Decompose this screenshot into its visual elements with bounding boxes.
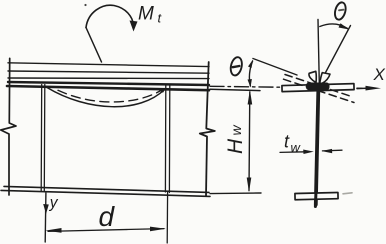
svg-text:t: t (284, 132, 290, 152)
svg-text:d: d (99, 201, 116, 232)
svg-text:y: y (49, 195, 59, 212)
scribble: distorted stiffener curl at section center (306, 71, 330, 90)
section web (thick) (316, 91, 319, 205)
section top flange (282, 84, 354, 92)
label theta lower (229, 56, 244, 77)
moment lever line (86, 28, 102, 63)
tw dimension arrows (280, 149, 342, 154)
section bottom flange (295, 192, 338, 199)
right web edge with break (200, 62, 215, 196)
svg-text:w: w (228, 125, 244, 136)
web buckle solid curve (47, 88, 165, 107)
dimension d line with arrows (45, 227, 166, 233)
bottom flange (double line) (1, 186, 210, 196)
upper angle arc with arrowhead (320, 23, 349, 29)
svg-text:X: X (373, 65, 386, 84)
upper angle line (320, 26, 351, 84)
faint scan mark (343, 193, 352, 194)
top extension line (Hw reference at flange) (210, 89, 260, 90)
web vertical reference line (318, 20, 319, 85)
svg-text:t: t (158, 11, 163, 26)
speck (84, 4, 86, 6)
label Mt (138, 4, 163, 26)
svg-text:M: M (138, 4, 154, 25)
right stiffener (double line) (165, 86, 169, 193)
bottom flange extension line (Hw reference) (210, 192, 261, 195)
web buckle dashed curve (58, 90, 160, 102)
centerline x-axis (210, 86, 381, 91)
dimension d right extension line (166, 192, 168, 243)
label tw (284, 132, 302, 156)
moment arc arrow Mt (86, 5, 138, 31)
y axis arrow (43, 193, 49, 242)
svg-text:w: w (291, 140, 302, 155)
angle arc lower theta with arrowheads (248, 60, 254, 88)
angle line lower theta (rotated flange axis extended) (253, 59, 297, 76)
buckle curves convergence wedge at right stiffener (158, 88, 167, 93)
Hw dimension line with arrows (247, 90, 253, 193)
left stiffener (double line) (41, 85, 45, 192)
label Hw (rotated) (224, 125, 247, 155)
rotated flange (dashed, turned by theta) (284, 75, 355, 103)
section web overshoot through bottom flange (314, 186, 318, 207)
label theta upper (333, 1, 347, 21)
left web edge with break (1, 58, 16, 195)
svg-text:H: H (224, 138, 247, 154)
top flange (laminated plates, 5 lines) (7, 63, 209, 90)
